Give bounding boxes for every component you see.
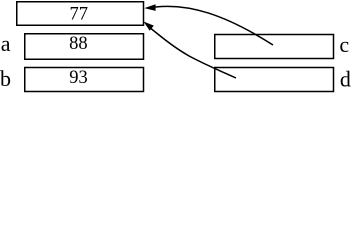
box a (value 88): [25, 34, 144, 60]
box d: [215, 68, 334, 92]
svg-text:d: d: [340, 67, 351, 92]
svg-text:93: 93: [69, 68, 88, 88]
svg-text:88: 88: [69, 34, 88, 54]
svg-text:c: c: [339, 32, 349, 57]
top box (value 77): [17, 2, 144, 26]
arrow from c to top box: arrowhead: [144, 4, 155, 11]
svg-text:77: 77: [69, 5, 88, 25]
box c: [215, 35, 334, 59]
box b (value 93): [25, 68, 144, 92]
svg-text:b: b: [0, 66, 11, 91]
arrow from d to top box: arrowhead: [144, 22, 154, 31]
arrow from c to top box: curved shaft: [156, 6, 274, 45]
svg-text:a: a: [1, 31, 11, 56]
arrow from d to top box: curved shaft: [151, 29, 236, 79]
